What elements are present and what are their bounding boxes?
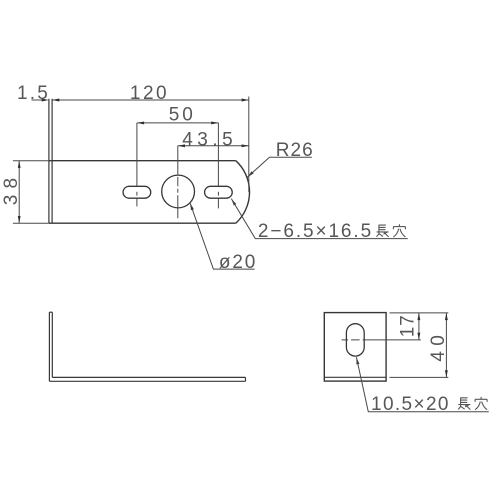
front view: slot horizontal centerline bbox=[342, 339, 421, 341]
leader 10.5x20 slot: arrow and line bbox=[356, 357, 359, 364]
leader o20: arrow and line bbox=[190, 203, 194, 211]
centerline of left slot bbox=[136, 123, 138, 206]
centerline of right slot bbox=[217, 123, 219, 208]
dimension 40: extension line (bottom) bbox=[390, 376, 449, 378]
front view: bottom bend line bbox=[324, 376, 386, 378]
svg-text:17: 17 bbox=[397, 314, 418, 337]
leader 2-6.5x16.5 slot: arrow and line bbox=[231, 199, 236, 206]
top view: bend outer edge line (left, thickness 1.5) bbox=[48, 99, 50, 223]
svg-text:120: 120 bbox=[130, 83, 169, 104]
hole: right slotted hole 6.5x16.5 bbox=[205, 186, 233, 198]
front view: vertical slotted hole 10.5x20 bbox=[346, 324, 364, 356]
top view: plate bottom edge outline bbox=[49, 222, 236, 224]
leader R26: arrow and line bbox=[247, 171, 253, 177]
svg-text:1.5: 1.5 bbox=[17, 83, 50, 104]
dimension 17: line bbox=[418, 313, 420, 340]
dimension 17: extension line (top) bbox=[390, 312, 449, 314]
dimension 1.5: tail and arrows bbox=[32, 99, 43, 101]
top view: bend inner edge line (left, thickness 1.5) bbox=[51, 99, 53, 223]
svg-text:40: 40 bbox=[428, 330, 449, 362]
kanji nagaana (slotted hole) label 2 bbox=[458, 398, 470, 410]
dimension 50: line bbox=[137, 122, 219, 124]
dimension 38: left extension lines bbox=[13, 161, 49, 224]
side view: horizontal leg top line bbox=[52, 376, 245, 378]
kanji nagaana (slotted hole) label 1 bbox=[377, 225, 389, 237]
side view: vertical leg outer line bbox=[48, 312, 50, 381]
hole: left slotted hole 6.5x16.5 bbox=[123, 186, 151, 198]
centerline of round hole bbox=[177, 146, 179, 218]
svg-text:38: 38 bbox=[1, 172, 22, 205]
dimension 38: line bbox=[18, 161, 20, 224]
top view: plate top edge outline bbox=[49, 160, 236, 162]
front view: flange plate outline bbox=[324, 313, 386, 382]
dimension 40: line bbox=[445, 313, 447, 378]
dimension 120: line bbox=[52, 99, 249, 101]
svg-text:43.5: 43.5 bbox=[182, 130, 237, 151]
svg-text:R26: R26 bbox=[276, 140, 314, 161]
hole: round hole ø20 bbox=[162, 175, 195, 208]
svg-text:ø20: ø20 bbox=[219, 252, 257, 273]
svg-text:10.5×20: 10.5×20 bbox=[371, 394, 450, 415]
side view: leg top cap bbox=[49, 311, 52, 313]
side view: vertical leg inner line bbox=[51, 312, 53, 377]
side view: leg right end cap bbox=[245, 377, 247, 381]
top view: rounded end arc R26 bbox=[236, 161, 250, 224]
svg-text:2−6.5×16.5: 2−6.5×16.5 bbox=[258, 221, 373, 242]
svg-text:50: 50 bbox=[169, 105, 196, 126]
dimension 43.5: line bbox=[178, 145, 249, 147]
side view: horizontal leg bottom line bbox=[49, 380, 245, 382]
dimension 120: right extension line bbox=[248, 97, 250, 193]
